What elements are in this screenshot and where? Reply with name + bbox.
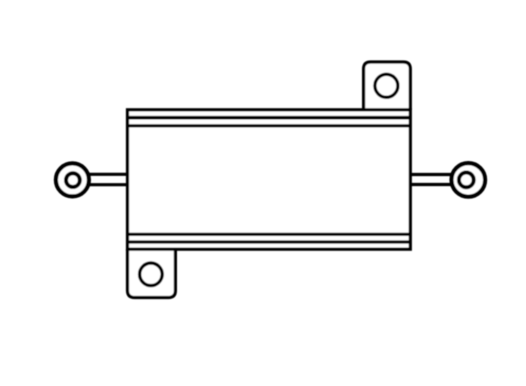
bottom mounting tab bbox=[128, 249, 176, 297]
body bottom flange line 2 bbox=[127, 240, 410, 243]
resistor body (aluminium housing) bbox=[128, 110, 411, 249]
body top flange line 1 bbox=[127, 116, 410, 120]
wire: left terminal strap top line bbox=[84, 173, 129, 176]
wire: left terminal strap bottom line bbox=[84, 183, 129, 186]
right solder lug terminal ring bbox=[452, 163, 486, 197]
body top flange line 2 bbox=[127, 124, 410, 127]
top mounting tab bbox=[364, 62, 411, 110]
left lug hole bbox=[66, 173, 80, 187]
bottom tab mounting hole bbox=[140, 263, 163, 286]
wire: right terminal strap bottom line bbox=[409, 183, 452, 186]
right lug hole bbox=[459, 173, 474, 188]
body bottom flange line 1 bbox=[127, 233, 410, 236]
top tab mounting hole bbox=[375, 74, 398, 97]
left solder lug terminal ring bbox=[56, 163, 89, 196]
wire: right terminal strap top line bbox=[409, 173, 452, 176]
